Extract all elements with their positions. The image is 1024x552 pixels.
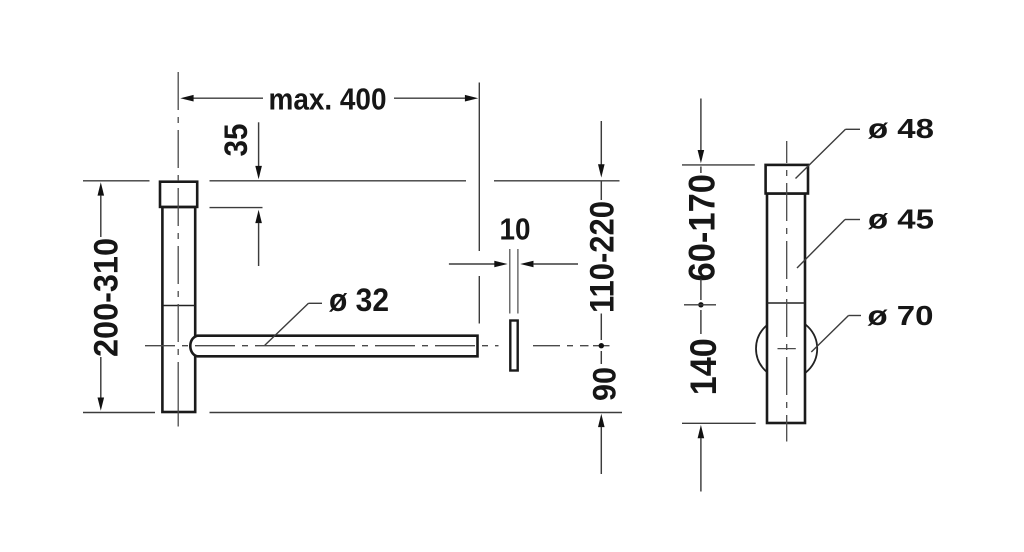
svg-text:ø 70: ø 70 [868, 300, 934, 331]
dim 90 bottom arrowhead (up) [598, 414, 605, 427]
dim 35 upper arrowhead (down) [255, 166, 262, 179]
horizontal centerline of outlet pipe [145, 345, 499, 347]
trap center crosshair tick [778, 348, 796, 350]
dim max.400 right extension line lower part [478, 276, 480, 324]
inlet pipe joint line [162, 305, 195, 307]
svg-text:35: 35 [218, 124, 254, 157]
leader ø70 diagonal [811, 316, 848, 353]
dim 60-170 segment below ext line [700, 167, 702, 174]
right pipe cap [766, 165, 808, 194]
dim 60-170 arrowhead (down) [698, 150, 705, 163]
vertical inlet pipe body [162, 207, 195, 412]
svg-text:max. 400: max. 400 [269, 82, 387, 117]
dim 90 bottom shaft [600, 427, 602, 474]
leader ø45 horizontal [845, 219, 860, 221]
inlet pipe cap (wall flange) [160, 182, 197, 207]
dim 35 upper arrow shaft [258, 122, 260, 167]
centerline tick at node [593, 345, 610, 347]
node dot at outlet axis [599, 343, 604, 348]
cap bottom extension line [210, 207, 263, 209]
leader ø48 diagonal [796, 129, 846, 178]
dim segment 60-170 text to node [700, 279, 702, 300]
dim 35 lower arrowhead (up) [255, 210, 262, 223]
node dot 60-170/140 [698, 302, 703, 307]
svg-text:200-310: 200-310 [88, 238, 126, 357]
dim 140 bottom shaft [700, 438, 702, 492]
svg-text:10: 10 [500, 211, 531, 246]
dim 10 left arrowhead (right) [494, 261, 507, 268]
svg-text:110-220: 110-220 [584, 201, 622, 313]
dim 200-310 upper arrowhead (up) [98, 182, 105, 195]
dim 140 bottom extension line [682, 422, 756, 424]
node tick [684, 304, 716, 306]
svg-text:90: 90 [587, 367, 623, 401]
dim 10 right arrowhead (left) [520, 261, 533, 268]
wall plate [510, 321, 517, 371]
dim 200-310 lower shaft [100, 357, 102, 398]
bulge circle (trap body ø70) [756, 318, 817, 379]
dim 200-310 lower arrowhead (down) [98, 398, 105, 411]
svg-text:ø 48: ø 48 [868, 113, 934, 144]
dim 110-220 segment below wall line [600, 181, 602, 200]
dim max.400 dimension line left part [193, 97, 264, 99]
svg-text:140: 140 [683, 338, 724, 395]
wall reference line (top) right segment [494, 180, 620, 182]
dim 35 lower arrow shaft [258, 223, 260, 266]
leader ø32 horizontal [309, 302, 323, 304]
dim segment node to 140 [700, 310, 702, 334]
svg-text:ø 45: ø 45 [868, 204, 934, 235]
dim 60-170 top extension line [682, 164, 755, 166]
leader ø32 diagonal [265, 303, 309, 345]
dim max.400 right arrowhead [465, 95, 478, 102]
right pipe body [767, 194, 805, 424]
dim segment text to node [600, 314, 602, 341]
dim 200-310 upper shaft [100, 195, 102, 237]
dim segment node to 90 [600, 351, 602, 364]
vertical centerline of inlet pipe [177, 72, 179, 390]
wall reference line (top, y=181) left segment [83, 180, 150, 182]
dim 140 bottom arrowhead (up) [698, 425, 705, 438]
leader ø70 horizontal [849, 315, 862, 317]
dim max.400 left arrowhead [180, 95, 193, 102]
right pipe joint line [767, 302, 805, 304]
dim 60-170 top arrow shaft [700, 99, 702, 152]
vertical centerline bottom solid run [177, 390, 179, 427]
svg-text:60-170: 60-170 [682, 174, 723, 282]
dim max.400 dimension line right part [394, 97, 466, 99]
dim 110-220 arrowhead (down) [598, 164, 605, 177]
right pipe centerline [786, 141, 788, 442]
dim 110-220 upper shaft [600, 121, 602, 165]
floor reference line (bottom, y=412.5) left segment [83, 412, 155, 414]
dim 10 right arrow shaft [533, 263, 578, 265]
horizontal outlet pipe with socket bulge at tee [190, 336, 477, 357]
leader ø48 horizontal [846, 128, 861, 130]
dim 10 right extension line [517, 249, 519, 314]
wall reference line (top) middle segment [210, 180, 467, 182]
leader ø45 diagonal [797, 220, 845, 269]
dim max.400 right extension line upper part [478, 83, 480, 252]
svg-text:ø 32: ø 32 [329, 282, 389, 318]
dim 10 left arrow shaft [449, 263, 495, 265]
centerline segment right of plate [533, 345, 589, 347]
floor reference line (bottom) right segment [210, 412, 623, 414]
dim 10 left extension line [509, 249, 511, 314]
